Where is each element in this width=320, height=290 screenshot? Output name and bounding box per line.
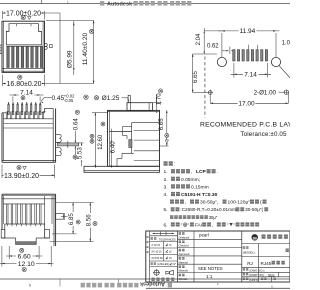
svg-text:1.02: 1.02 (282, 40, 290, 46)
svg-text:F: F (217, 283, 219, 287)
svg-text:": " (233, 222, 235, 228)
svg-text:11.40±0.20: 11.40±0.20 (82, 32, 89, 65)
svg-text:0.05mm;: 0.05mm; (181, 177, 200, 183)
svg-text:L: L (67, 0, 69, 4)
svg-text:FAI: FAI (195, 222, 202, 228)
svg-text:,: , (185, 201, 186, 206)
svg-text:Designed:: Designed: (179, 236, 191, 239)
svg-text:Tolerance:±0.05: Tolerance:±0.05 (240, 131, 287, 138)
svg-text:Material:: Material: (179, 270, 189, 273)
svg-text:pearl: pearl (199, 233, 209, 238)
svg-text:100-120μ": 100-120μ" (228, 200, 251, 206)
svg-text:6.65: 6.65 (192, 70, 199, 82)
svg-text:.: . (217, 170, 218, 175)
svg-text:13.90±0.20: 13.90±0.20 (4, 173, 39, 180)
svg-text:(PART NO):: (PART NO): (249, 273, 264, 277)
svg-text:: TOLERANCES: : TOLERANCES (157, 238, 176, 241)
svg-text:,: , (212, 223, 213, 228)
svg-text:": " (227, 222, 229, 228)
svg-text:RJ45: RJ45 (261, 261, 272, 266)
svg-text:4.: 4. (164, 192, 168, 198)
svg-text:0.64: 0.64 (72, 118, 79, 130)
svg-text:.XX ±0.10: .XX ±0.10 (151, 250, 163, 253)
svg-text:(MODEL):: (MODEL): (243, 250, 256, 254)
svg-text:12.60: 12.60 (97, 134, 104, 150)
svg-text:0.45: 0.45 (52, 95, 65, 102)
svg-text:30-50μ",: 30-50μ", (200, 200, 218, 206)
svg-text:Approved:: Approved: (179, 253, 191, 256)
svg-text:8.56: 8.56 (85, 214, 92, 226)
svg-text:C5191-H T=0.30: C5191-H T=0.30 (181, 192, 218, 198)
svg-text:0.62: 0.62 (207, 44, 219, 50)
svg-text:1.: 1. (164, 169, 168, 175)
svg-text:.XXX±0.05: .XXX±0.05 (151, 257, 164, 260)
svg-text:(UNIT):: (UNIT): (249, 278, 259, 282)
svg-text:2-Ø1.00: 2-Ø1.00 (254, 90, 277, 97)
svg-text:6.: 6. (164, 222, 168, 228)
svg-text:Autodesk: Autodesk (107, 2, 133, 8)
svg-text::: : (174, 162, 175, 168)
svg-text:": " (181, 222, 183, 228)
svg-text:3B: 3B (253, 236, 258, 240)
svg-text:17.00: 17.00 (238, 101, 255, 108)
svg-text:16.80±0.20: 16.80±0.20 (7, 81, 42, 88)
svg-text:1:1: 1:1 (206, 274, 213, 279)
svg-text:7.14: 7.14 (20, 90, 33, 97)
svg-text:1.70: 1.70 (156, 93, 163, 105)
svg-text:": " (188, 222, 190, 228)
svg-text:RJ: RJ (247, 261, 253, 266)
svg-text:±1°: ±1° (172, 263, 176, 266)
svg-text:7.14: 7.14 (244, 72, 257, 79)
svg-text::C2680-R,T=0.20±0.01mm.: :C2680-R,T=0.20±0.01mm. (180, 207, 237, 212)
svg-text:Ø5.99: Ø5.99 (66, 50, 73, 68)
svg-text:.X ±0.15: .X ±0.15 (151, 244, 161, 247)
svg-text:-0.05: -0.05 (64, 98, 74, 103)
svg-text:(ANGLES): (ANGLES) (157, 263, 169, 266)
svg-text:6.85: 6.85 (68, 213, 75, 225)
svg-text:3.: 3. (164, 184, 168, 190)
svg-text:11.94: 11.94 (240, 28, 256, 35)
svg-text:(DWG NO.):: (DWG NO.): (249, 268, 265, 272)
svg-text:SEE NOTES: SEE NOTES (198, 266, 223, 271)
svg-text:5.53: 5.53 (77, 147, 84, 159)
svg-text:2.: 2. (164, 177, 168, 183)
svg-text:LCP: LCP (196, 169, 207, 175)
svg-text:12.10: 12.10 (18, 261, 35, 268)
svg-text:SEE: SEE (268, 273, 276, 277)
svg-text:6.40: 6.40 (110, 141, 117, 153)
svg-text:30μ": 30μ" (209, 215, 218, 220)
svg-text:6.65: 6.65 (158, 118, 165, 130)
svg-text:Ø1.25: Ø1.25 (102, 95, 120, 102)
svg-text:Material:: Material: (179, 261, 189, 264)
svg-text:6.60: 6.60 (17, 253, 30, 260)
svg-text:2.04: 2.04 (196, 33, 202, 45)
svg-text:SCALE:: SCALE: (179, 278, 188, 281)
svg-text:5.: 5. (164, 207, 168, 212)
svg-text:Checked:: Checked: (179, 245, 190, 248)
svg-text:30-50μ"(: 30-50μ"( (245, 207, 263, 212)
svg-text:0.15mm: 0.15mm (191, 184, 209, 190)
svg-text:RECOMMENDED P.C.B LAYOU: RECOMMENDED P.C.B LAYOU (200, 121, 290, 128)
svg-text:,: , (191, 170, 192, 175)
